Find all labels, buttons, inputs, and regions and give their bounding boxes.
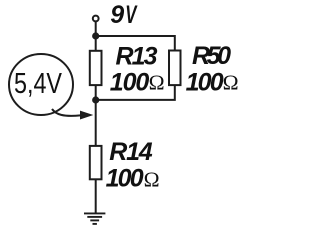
svg-text:R14: R14	[109, 138, 153, 166]
svg-text:9: 9	[110, 1, 124, 29]
svg-text:100: 100	[186, 68, 224, 96]
svg-text:V: V	[125, 1, 138, 29]
svg-text:Ω: Ω	[223, 70, 239, 94]
svg-text:100: 100	[106, 165, 144, 193]
svg-text:R13: R13	[116, 42, 158, 70]
svg-text:5,4V: 5,4V	[14, 68, 63, 100]
svg-text:100: 100	[110, 68, 150, 96]
svg-text:Ω: Ω	[149, 70, 165, 94]
svg-text:Ω: Ω	[144, 167, 160, 191]
svg-text:R50: R50	[192, 42, 231, 70]
